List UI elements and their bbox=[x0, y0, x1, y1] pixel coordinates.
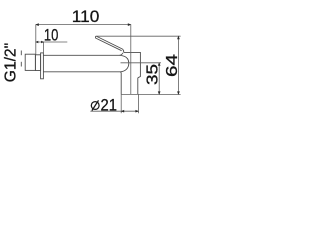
neck curve body-to-cap bbox=[119, 53, 123, 56]
arrow 64 top bbox=[177, 36, 180, 40]
dia21 left extension line bbox=[120, 94, 122, 113]
centerline of outlet bbox=[130, 25, 132, 95]
dim 10 right extension line bbox=[43, 42, 45, 53]
svg-text:35: 35 bbox=[145, 64, 162, 85]
body axis extension line bbox=[121, 62, 162, 64]
body end intersection arc bbox=[119, 55, 129, 72]
connector ring bbox=[35, 55, 40, 71]
lever tip arc bbox=[95, 36, 96, 38]
arrow 10 right bbox=[41, 41, 44, 43]
outlet bottom / dims bottom extension line bbox=[121, 93, 180, 95]
dia21 right extension line bbox=[137, 94, 139, 113]
dim 10 line bbox=[36, 41, 68, 43]
outlet tube right edge bbox=[137, 78, 139, 95]
lever end cut bbox=[123, 49, 124, 52]
arrow dia21 left bbox=[121, 110, 125, 113]
lever handle upper edge bbox=[96, 36, 122, 49]
arrow dia21 right bbox=[135, 110, 139, 113]
wall pipe stub dash upper bbox=[20, 51, 22, 56]
svg-text:G1/2": G1/2" bbox=[3, 43, 20, 83]
inlet nipple bbox=[25, 54, 35, 70]
arrow 64 bottom bbox=[177, 91, 180, 95]
dim 110 line bbox=[36, 24, 131, 26]
diameter symbol slash bbox=[92, 100, 99, 110]
lever handle lower edge bbox=[97, 39, 122, 51]
dim 64 top extension line bbox=[96, 35, 180, 37]
dim 110 left extension line bbox=[35, 25, 37, 55]
svg-text:10: 10 bbox=[44, 25, 59, 44]
dia21 dim line bbox=[90, 110, 138, 112]
arrow 35 bottom bbox=[158, 91, 161, 95]
svg-text:110: 110 bbox=[72, 7, 100, 26]
svg-text:21: 21 bbox=[101, 96, 118, 115]
outlet tube left edge bbox=[120, 72, 121, 95]
spout body bottom edge bbox=[43, 71, 120, 73]
wall flange bbox=[41, 53, 44, 79]
arrow 110 left bbox=[35, 23, 39, 26]
valve cap housing bbox=[124, 52, 141, 77]
arrow 110 right bbox=[128, 23, 132, 26]
diameter symbol circle bbox=[91, 102, 99, 110]
spout body top edge bbox=[43, 54, 119, 56]
arrow 35 top bbox=[158, 62, 161, 66]
dim 35 line bbox=[158, 63, 160, 95]
dim 64 line bbox=[177, 36, 179, 94]
arrow 10 left bbox=[35, 41, 38, 43]
wall pipe stub dash lower bbox=[20, 62, 22, 67]
svg-text:64: 64 bbox=[164, 54, 181, 77]
